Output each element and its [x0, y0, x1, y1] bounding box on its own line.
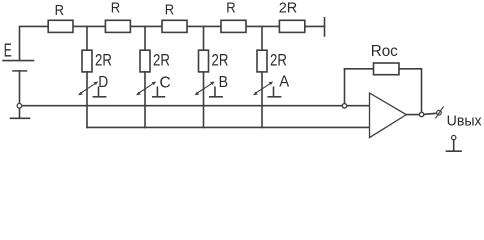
terminal pin bottom right circle [452, 135, 456, 139]
svg-text:E: E [4, 39, 12, 60]
svg-text:R: R [111, 1, 120, 17]
wire upper bus to inverting input [22, 105, 370, 107]
switch C arrow [136, 82, 156, 96]
svg-text:2R: 2R [95, 51, 112, 70]
contact B [214, 87, 216, 96]
resistor Roc [374, 63, 400, 75]
wire top rail [20, 26, 325, 60]
contact A [273, 87, 275, 96]
wire drop to 2R B [203, 26, 205, 50]
contact C [156, 87, 158, 96]
wire feedback top left [345, 68, 374, 70]
wire feedback left vertical [344, 69, 346, 104]
node left bus [17, 104, 22, 109]
svg-text:2R: 2R [153, 51, 170, 70]
wire feedback right vertical [421, 69, 423, 115]
terminal pin stem [453, 140, 455, 151]
terminal output stroke [436, 107, 444, 118]
svg-text:R: R [226, 0, 235, 16]
svg-text:C: C [160, 75, 171, 92]
svg-text:A: A [279, 74, 289, 91]
svg-text:2R: 2R [212, 51, 229, 70]
resistor 2R of bit C [140, 50, 150, 72]
battery E long plate [3, 60, 34, 62]
terminal bar right end of rail [324, 18, 326, 36]
svg-text:2R: 2R [279, 0, 298, 16]
svg-text:D: D [98, 74, 108, 91]
resistor 2R of bit A [257, 50, 267, 72]
node feedback on bus [342, 104, 346, 108]
resistor 2R of bit D [82, 50, 92, 72]
wire drop to 2R A [261, 26, 263, 50]
resistor R4 [221, 20, 246, 32]
svg-text:B: B [219, 74, 228, 91]
wire pole D [86, 72, 88, 128]
switch A arrow [253, 82, 273, 96]
svg-text:Uвых: Uвых [447, 113, 482, 130]
wire feedback top right [399, 68, 422, 70]
node output junction [419, 112, 423, 116]
switch D arrow [78, 82, 98, 96]
svg-text:R: R [165, 3, 174, 19]
wire op-amp output [406, 114, 421, 116]
wire pole B [203, 72, 205, 128]
op-amp U1 [370, 93, 407, 138]
wire pole C [144, 72, 146, 128]
wire pole A [261, 72, 263, 128]
resistor 2R of bit B [199, 50, 209, 72]
battery E short plate [13, 70, 27, 72]
wire lower bus to non-inverting input [87, 126, 370, 128]
svg-text:Roc: Roc [371, 43, 398, 60]
terminal output circle [437, 110, 442, 115]
resistor R3 [162, 20, 187, 32]
resistor R1 [48, 20, 73, 32]
switch B arrow [195, 82, 215, 96]
contact D [98, 87, 100, 96]
wire drop to 2R C [144, 26, 146, 50]
ground bar bottom left [11, 117, 30, 119]
wire E negative lead [19, 71, 21, 118]
svg-text:R: R [55, 3, 64, 19]
resistor R2 [105, 20, 130, 32]
wire drop to 2R D [86, 26, 88, 50]
resistor 2R top [279, 20, 304, 32]
terminal pin bar [447, 150, 462, 152]
svg-text:2R: 2R [270, 50, 287, 69]
